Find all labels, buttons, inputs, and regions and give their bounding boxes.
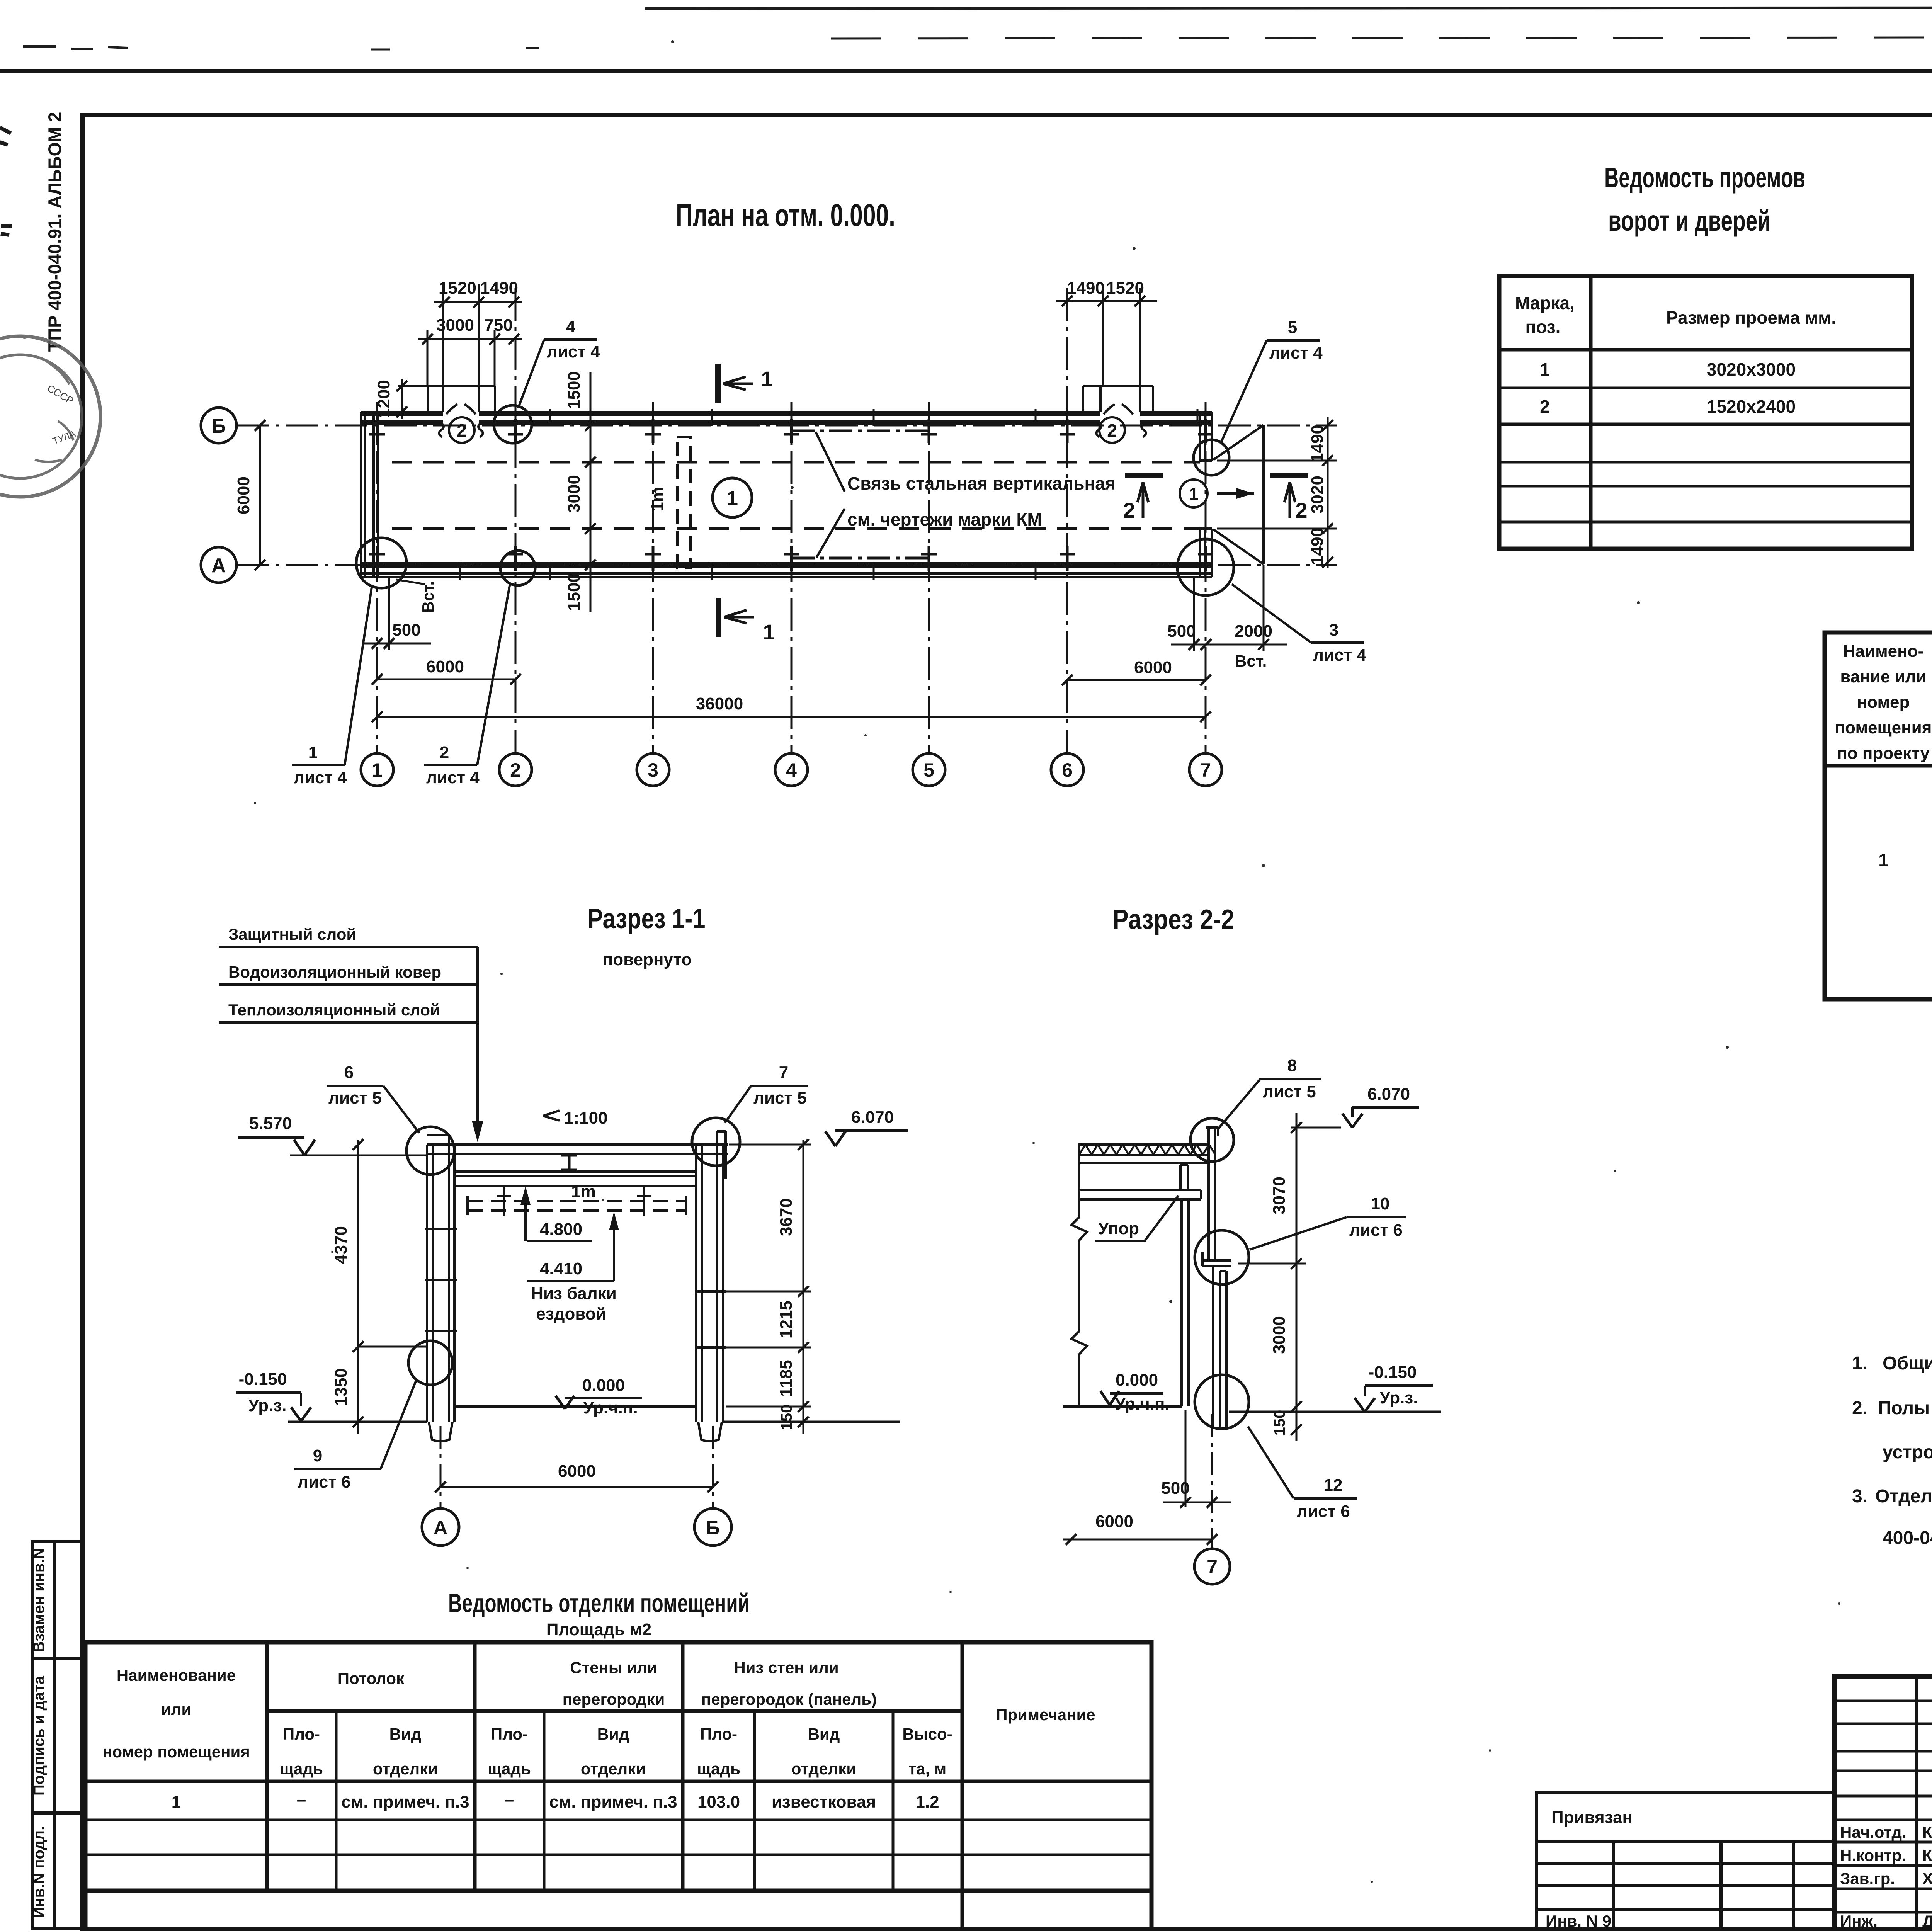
axis B dash-dot line: [236, 425, 1337, 427]
axis 7 vertical: [1205, 402, 1207, 753]
svg-text:План на отм. 0.000.: План на отм. 0.000.: [676, 198, 895, 233]
east gate door leaves open: [1213, 425, 1264, 564]
section 2-2 column: [1182, 1199, 1189, 1406]
svg-text:4: 4: [566, 317, 576, 336]
svg-text:7: 7: [1207, 1556, 1218, 1578]
privyazan block: [1536, 1793, 1835, 1929]
svg-text:Взамен инв.N: Взамен инв.N: [31, 1548, 48, 1653]
svg-text:Площадь м2: Площадь м2: [546, 1620, 651, 1639]
svg-text:Вст.: Вст.: [419, 581, 437, 613]
svg-text:лист 5: лист 5: [328, 1088, 382, 1107]
svg-text:5: 5: [1288, 318, 1297, 337]
svg-text:Дудукина: Дудукина: [1922, 1912, 1932, 1930]
svg-text:5: 5: [923, 759, 934, 781]
detail circle east bottom (node 3): [1177, 539, 1234, 595]
svg-text:6: 6: [344, 1063, 354, 1082]
gate 1 mark circle 2: [449, 417, 474, 443]
axis circle A: [201, 547, 236, 583]
svg-text:вание или: вание или: [1840, 667, 1926, 686]
bottom wall (4 lines): [361, 563, 1212, 577]
section 2-2 roof with deck teeth: [1079, 1145, 1215, 1155]
svg-text:Зав.гр.: Зав.гр.: [1840, 1869, 1895, 1888]
svg-text:103.0: 103.0: [697, 1793, 740, 1811]
svg-text:1: 1: [763, 620, 775, 644]
svg-text:1: 1: [172, 1793, 181, 1811]
svg-text:1m: 1m: [571, 1182, 596, 1201]
svg-text:1: 1: [1189, 485, 1198, 503]
detail circle node 8: [1190, 1118, 1234, 1162]
gate 2 break chevrons: [1096, 404, 1146, 437]
section 2-2 axis 7: [1211, 1414, 1213, 1548]
svg-text:известковая: известковая: [772, 1793, 876, 1811]
finishing table grid: [85, 1642, 1151, 1929]
svg-text:0.000: 0.000: [582, 1376, 625, 1395]
svg-text:Вид: Вид: [597, 1725, 629, 1743]
svg-text:Привязан: Привязан: [1551, 1808, 1633, 1827]
svg-text:поз.: поз.: [1526, 317, 1561, 337]
svg-text:1.2: 1.2: [915, 1793, 939, 1811]
svg-text:1:100: 1:100: [564, 1109, 608, 1128]
svg-text:Инж.: Инж.: [1840, 1912, 1878, 1930]
svg-text:1215: 1215: [777, 1301, 796, 1338]
detail circle node 10: [1195, 1230, 1249, 1284]
1m dashed column: [677, 437, 690, 568]
svg-text:6000: 6000: [558, 1462, 596, 1481]
svg-text:2: 2: [1295, 498, 1307, 522]
notes: [1852, 1353, 1932, 1548]
svg-text:2000: 2000: [1235, 622, 1272, 641]
svg-text:Пло-: Пло-: [491, 1725, 528, 1743]
svg-text:–: –: [297, 1790, 306, 1809]
svg-text:4: 4: [786, 759, 797, 781]
finishing table data row: [172, 1790, 939, 1811]
svg-text:3020х3000: 3020х3000: [1707, 359, 1796, 379]
svg-text:1185: 1185: [777, 1360, 796, 1396]
floor line: [454, 1405, 696, 1408]
svg-text:Примечание: Примечание: [996, 1706, 1095, 1724]
svg-text:Нач.отд.: Нач.отд.: [1840, 1823, 1906, 1841]
svg-text:4.800: 4.800: [540, 1220, 582, 1239]
sidebar boxes left bottom: [32, 1542, 83, 1929]
section 2-2 left cut edge with breaks: [1071, 1143, 1087, 1406]
svg-text:А: А: [211, 554, 226, 577]
svg-text:6.070: 6.070: [851, 1108, 894, 1127]
svg-text:Ур.з.: Ур.з.: [1380, 1388, 1418, 1407]
svg-text:4.410: 4.410: [540, 1259, 582, 1278]
gate 2 niche (axis 6): [1083, 386, 1153, 412]
svg-text:1: 1: [761, 367, 773, 391]
crane zone dashed band: [468, 1201, 686, 1211]
svg-text:Защитный слой: Защитный слой: [228, 925, 356, 943]
top left detail circle: [406, 1127, 454, 1175]
dim stack left (4370/1350): [357, 1140, 359, 1434]
svg-text:отделки: отделки: [373, 1760, 438, 1778]
svg-text:1490: 1490: [1308, 425, 1327, 463]
svg-text:2: 2: [1123, 498, 1135, 522]
svg-text:3.: 3.: [1852, 1486, 1867, 1507]
svg-text:1490: 1490: [1308, 527, 1327, 565]
svg-text:устройству полов выполнять в с: устройству полов выполнять в соответстви…: [1883, 1442, 1932, 1463]
upper wall panel: [1206, 1128, 1218, 1260]
svg-text:перегородки: перегородки: [563, 1690, 665, 1708]
bracing dash-dot bottom: [791, 557, 929, 560]
svg-text:Полы выполнять после прокладки: Полы выполнять после прокладки всех внут…: [1878, 1398, 1932, 1418]
svg-text:–: –: [505, 1790, 514, 1809]
dim extension verticals left gate: [427, 284, 495, 386]
svg-text:Кондратьев: Кондратьев: [1922, 1823, 1932, 1841]
svg-text:лист 4: лист 4: [294, 768, 347, 787]
svg-text:6.070: 6.070: [1367, 1085, 1410, 1104]
svg-text:12: 12: [1324, 1476, 1343, 1495]
panel joint ticks: [460, 409, 1197, 580]
left parapet corner: [427, 1135, 449, 1145]
svg-text:Кондратьев: Кондратьев: [1922, 1846, 1932, 1864]
left column: [425, 1145, 457, 1422]
svg-text:Вид: Вид: [808, 1725, 840, 1743]
svg-text:Ведомость отделки помещений: Ведомость отделки помещений: [448, 1588, 750, 1618]
floors explication grid: [1825, 633, 1932, 999]
top right detail circle: [692, 1118, 740, 1166]
ceiling lines: [454, 1172, 696, 1186]
svg-text:ездовой: ездовой: [536, 1304, 606, 1323]
floors explication header: [1835, 642, 1932, 763]
svg-text:2: 2: [457, 420, 467, 440]
svg-text:6000: 6000: [1134, 658, 1172, 677]
svg-text:0.000: 0.000: [1116, 1371, 1158, 1389]
section mark 1 top: [715, 364, 721, 403]
svg-text:Низ балки: Низ балки: [531, 1284, 617, 1303]
svg-text:2: 2: [1107, 420, 1117, 440]
dim stack right (3670/1215/1185/150): [803, 1140, 804, 1434]
svg-text:500: 500: [1167, 622, 1196, 641]
wall joint plates: [1202, 1252, 1231, 1266]
svg-text:5.570: 5.570: [249, 1114, 292, 1133]
svg-text:лист 5: лист 5: [753, 1088, 807, 1107]
svg-text:1490: 1490: [1067, 279, 1105, 298]
ground lines: [288, 1421, 427, 1423]
signature grid: [1835, 1676, 1932, 1929]
svg-text:1500: 1500: [565, 573, 583, 611]
axis A dash-dot line: [236, 564, 1337, 566]
svg-text:Инв.N подл.: Инв.N подл.: [31, 1826, 48, 1918]
svg-text:лист 4: лист 4: [426, 768, 480, 787]
axis circle B: [201, 408, 236, 443]
table openings grid: [1499, 276, 1912, 549]
svg-text:лист 5: лист 5: [1263, 1082, 1316, 1101]
svg-text:1350: 1350: [332, 1368, 350, 1406]
svg-text:Общие указания см. на листе 1.: Общие указания см. на листе 1.: [1883, 1353, 1932, 1374]
section mark 2 right: [1270, 473, 1308, 478]
sheet top scan line: [0, 69, 1932, 73]
detail circle east top (node 5): [1194, 440, 1229, 475]
axis 1 vertical: [376, 402, 378, 753]
svg-text:помещения: помещения: [1835, 718, 1932, 737]
svg-text:номер: номер: [1857, 693, 1910, 712]
svg-text:Упор: Упор: [1098, 1219, 1139, 1238]
svg-text:Разрез 2-2: Разрез 2-2: [1113, 904, 1235, 935]
section 1-1 axis B: [712, 1426, 714, 1508]
svg-text:3000: 3000: [1270, 1316, 1289, 1354]
svg-text:8: 8: [1287, 1056, 1297, 1075]
gate 1 niche (axis 2): [428, 386, 495, 412]
svg-text:1: 1: [1540, 359, 1550, 379]
svg-text:та, м: та, м: [908, 1760, 946, 1778]
right column: [695, 1145, 726, 1422]
svg-text:4370: 4370: [332, 1226, 350, 1264]
lower left detail circle: [408, 1341, 452, 1385]
svg-text:750: 750: [484, 316, 512, 335]
svg-text:Инв. N 9: Инв. N 9: [1546, 1912, 1611, 1930]
svg-text:Ур.з.: Ур.з.: [248, 1396, 287, 1415]
svg-text:ворот и дверей: ворот и дверей: [1608, 205, 1770, 237]
svg-text:Марка,: Марка,: [1515, 293, 1575, 313]
svg-text:лист 6: лист 6: [298, 1473, 351, 1492]
svg-text:см. примеч. п.3: см. примеч. п.3: [341, 1793, 469, 1811]
svg-text:Вид: Вид: [389, 1725, 422, 1743]
svg-text:щадь: щадь: [488, 1760, 531, 1778]
room number circle 1: [713, 478, 752, 517]
svg-text:Пло-: Пло-: [700, 1725, 737, 1743]
svg-text:6: 6: [1062, 759, 1073, 781]
section mark 2 left: [1125, 473, 1163, 478]
floor line section 2-2: [1063, 1405, 1182, 1408]
section 2-2 beam flange band: [1079, 1190, 1201, 1199]
svg-text:Наименование: Наименование: [117, 1666, 236, 1684]
section 1-1 roof slab: [427, 1143, 728, 1146]
dim stack section 2-2 (3070/3000/150): [1296, 1113, 1298, 1441]
svg-text:Высо-: Высо-: [902, 1725, 952, 1743]
west end wall: [361, 412, 378, 577]
svg-text:щадь: щадь: [697, 1760, 740, 1778]
footings: [429, 1422, 722, 1441]
svg-text:Б: Б: [706, 1517, 720, 1539]
finishing table header: [102, 1658, 1095, 1778]
svg-text:Пло-: Пло-: [283, 1725, 320, 1743]
svg-text:Н.контр.: Н.контр.: [1840, 1846, 1906, 1864]
svg-text:Б: Б: [211, 415, 226, 437]
axis 4 vertical: [791, 402, 793, 753]
svg-text:см. чертежи марки КМ: см. чертежи марки КМ: [847, 509, 1042, 529]
svg-text:Связь стальная вертикальная: Связь стальная вертикальная: [847, 473, 1116, 493]
svg-text:отделки: отделки: [791, 1760, 856, 1778]
svg-text:Ведомость проемов: Ведомость проемов: [1604, 162, 1805, 194]
svg-text:Потолок: Потолок: [338, 1669, 405, 1687]
svg-text:-0.150: -0.150: [1369, 1363, 1417, 1382]
svg-text:см. примеч. п.3: см. примеч. п.3: [549, 1793, 677, 1811]
svg-text:1: 1: [1878, 850, 1888, 870]
svg-text:повернуто: повернуто: [603, 950, 692, 969]
svg-text:6000: 6000: [1095, 1512, 1133, 1531]
lower wall panel: [1212, 1266, 1229, 1428]
ground line section 2-2: [1229, 1411, 1441, 1413]
svg-text:А: А: [434, 1517, 447, 1539]
svg-text:Ур.ч.п.: Ур.ч.п.: [1115, 1395, 1169, 1413]
svg-text:лист 6: лист 6: [1297, 1502, 1350, 1521]
svg-text:лист 4: лист 4: [1313, 646, 1366, 665]
svg-text:отделки: отделки: [581, 1760, 646, 1778]
axis circles 1-7: [361, 753, 1222, 786]
svg-text:3070: 3070: [1270, 1177, 1289, 1214]
top scan dash artifacts: [23, 8, 1932, 49]
interior gate dashed lines: [392, 461, 1200, 464]
dim 1200 niche height: [401, 379, 403, 419]
svg-text:1m: 1m: [648, 487, 667, 512]
detail circle axis1/A (node 1): [356, 538, 406, 588]
axis 5 vertical: [928, 402, 930, 753]
svg-text:36000: 36000: [696, 694, 743, 713]
svg-text:Разрез 1-1: Разрез 1-1: [588, 903, 706, 934]
svg-text:-0.150: -0.150: [239, 1370, 287, 1389]
svg-text:Хруслова: Хруслова: [1922, 1869, 1932, 1888]
svg-text:3: 3: [1329, 621, 1338, 639]
svg-text:Низ стен или: Низ стен или: [734, 1658, 838, 1677]
axis 3 vertical: [652, 402, 654, 753]
dim 1490/3020/1490 east vertical: [1217, 417, 1337, 568]
detail circle axis2/B (node 4): [494, 405, 532, 443]
svg-text:3020: 3020: [1308, 476, 1327, 514]
dim 1500/3000/1500 vertical: [590, 372, 592, 612]
section 1-1 axis A: [440, 1426, 442, 1508]
room number circle 1 east: [1180, 480, 1207, 507]
svg-text:3: 3: [648, 759, 658, 781]
column marks on top wall: [369, 419, 1213, 443]
svg-text:1520: 1520: [439, 279, 476, 298]
svg-text:Размер проема мм.: Размер проема мм.: [1666, 308, 1836, 328]
right parapet strip: [717, 1131, 726, 1179]
svg-text:2.: 2.: [1852, 1398, 1867, 1418]
svg-text:лист 4: лист 4: [547, 342, 600, 361]
detail circle node 12: [1195, 1375, 1249, 1429]
title block outline: [1835, 1676, 1932, 1929]
column marks on bottom wall: [369, 546, 1213, 571]
svg-text:1: 1: [726, 487, 738, 510]
axis 6 vertical: [1066, 288, 1068, 753]
svg-text:500: 500: [392, 621, 420, 639]
svg-text:1.: 1.: [1852, 1353, 1867, 1374]
svg-text:400-040.91-КМ1 лист1.: 400-040.91-КМ1 лист1.: [1883, 1528, 1932, 1548]
detail circle axis2/A (node 2): [500, 551, 535, 585]
svg-text:перегородок (панель): перегородок (панель): [701, 1690, 877, 1708]
svg-text:7: 7: [1200, 759, 1211, 781]
svg-text:2: 2: [440, 743, 449, 762]
stamp circle bottom-left (faded): [0, 336, 100, 497]
roof layers arrow: [476, 947, 479, 1138]
svg-text:Стены или: Стены или: [570, 1658, 657, 1677]
axis 2 vertical: [515, 288, 517, 753]
gate 2 mark circle 2: [1099, 417, 1125, 443]
svg-text:Наимено-: Наимено-: [1843, 642, 1923, 661]
svg-text:лист 4: лист 4: [1269, 344, 1323, 362]
svg-text:7: 7: [779, 1063, 788, 1082]
svg-text:1200: 1200: [374, 380, 393, 418]
svg-text:6000: 6000: [234, 476, 253, 514]
dim 6000 west vertical: [259, 425, 261, 565]
svg-text:1500: 1500: [565, 371, 583, 409]
svg-text:Водоизоляционный ковер: Водоизоляционный ковер: [228, 963, 441, 981]
svg-text:3670: 3670: [777, 1198, 796, 1236]
svg-text:ТПР 400-040.91. АЛЬБОМ 2: ТПР 400-040.91. АЛЬБОМ 2: [44, 112, 65, 352]
svg-text:1520х2400: 1520х2400: [1707, 396, 1796, 417]
left edge scan marks: [0, 128, 12, 235]
svg-text:10: 10: [1371, 1194, 1390, 1213]
section mark 1 bottom: [716, 598, 721, 637]
svg-text:1: 1: [372, 759, 383, 781]
upor stub: [1180, 1165, 1188, 1190]
svg-text:150: 150: [778, 1405, 795, 1430]
svg-text:по проекту: по проекту: [1837, 744, 1930, 763]
svg-text:1520: 1520: [1106, 279, 1144, 298]
svg-text:3000: 3000: [565, 475, 583, 513]
svg-text:Подпись и дата: Подпись и дата: [31, 1675, 48, 1796]
svg-text:лист 6: лист 6: [1349, 1221, 1403, 1240]
svg-text:щадь: щадь: [280, 1760, 323, 1778]
svg-text:9: 9: [313, 1446, 322, 1465]
svg-text:или: или: [161, 1700, 191, 1718]
svg-text:1: 1: [308, 743, 318, 762]
svg-text:1490: 1490: [480, 279, 518, 298]
bracing dash-dot top: [791, 430, 929, 432]
svyaz leaders: [816, 432, 845, 558]
svg-text:6000: 6000: [426, 657, 464, 676]
signature roles and names: [1840, 1823, 1932, 1930]
gate 1 break chevrons: [439, 404, 483, 437]
east gate arrow: [1217, 488, 1254, 499]
svg-text:2: 2: [1540, 396, 1550, 417]
svg-text:150: 150: [1271, 1410, 1288, 1436]
east end wall stubs with gate opening: [1200, 412, 1212, 577]
svg-text:номер помещения: номер помещения: [102, 1743, 250, 1761]
svg-text:Теплоизоляционный слой: Теплоизоляционный слой: [228, 1001, 440, 1019]
svg-text:3000: 3000: [436, 316, 474, 335]
crane rail I-beam: [561, 1155, 577, 1170]
svg-text:Отделку стен и потолков из ста: Отделку стен и потолков из стальных проф…: [1875, 1486, 1932, 1507]
top wall (4 lines, openings at gates): [361, 412, 1212, 423]
svg-text:2: 2: [510, 759, 521, 781]
svg-text:Вст.: Вст.: [1235, 652, 1267, 670]
